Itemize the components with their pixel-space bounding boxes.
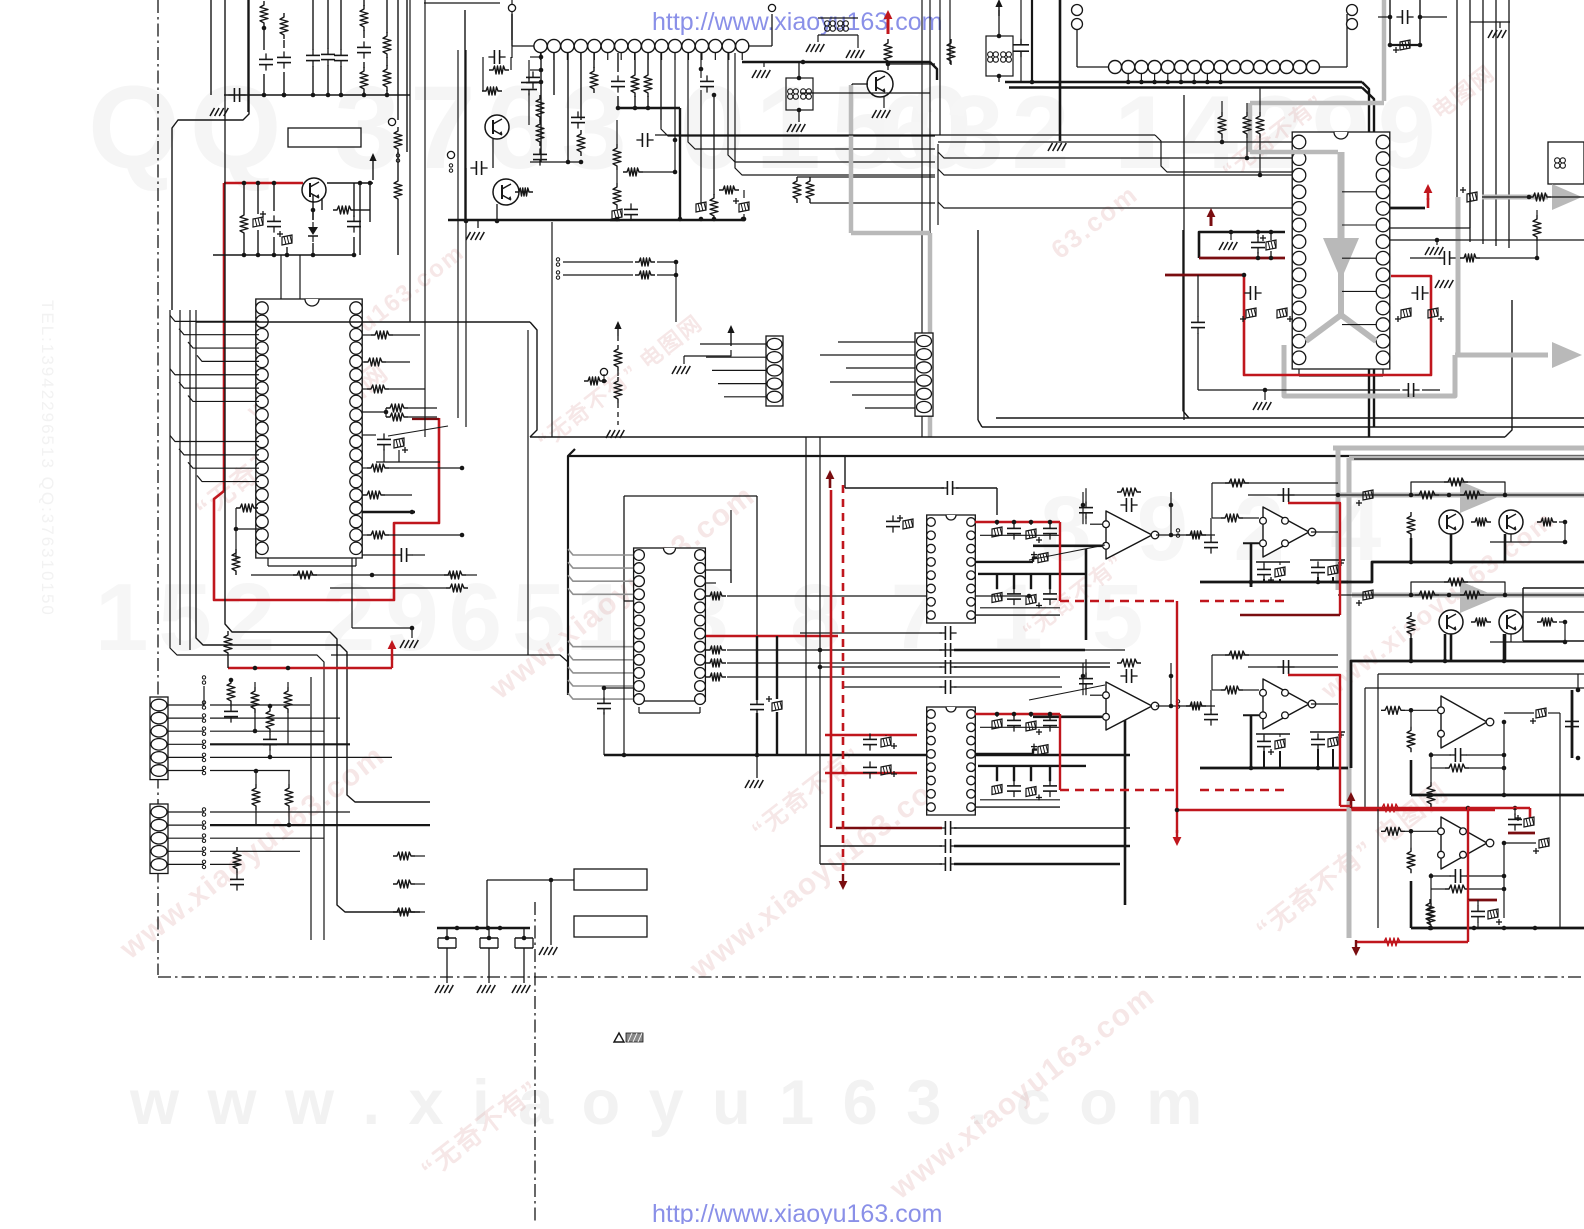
svg-text:http://www.xiaoyu163.com: http://www.xiaoyu163.com [652, 8, 942, 36]
svg-text:http://www.xiaoyu163.com: http://www.xiaoyu163.com [652, 1200, 942, 1224]
svg-text:TEL:13942296513 QQ:376310150: TEL:13942296513 QQ:376310150 [38, 300, 57, 617]
